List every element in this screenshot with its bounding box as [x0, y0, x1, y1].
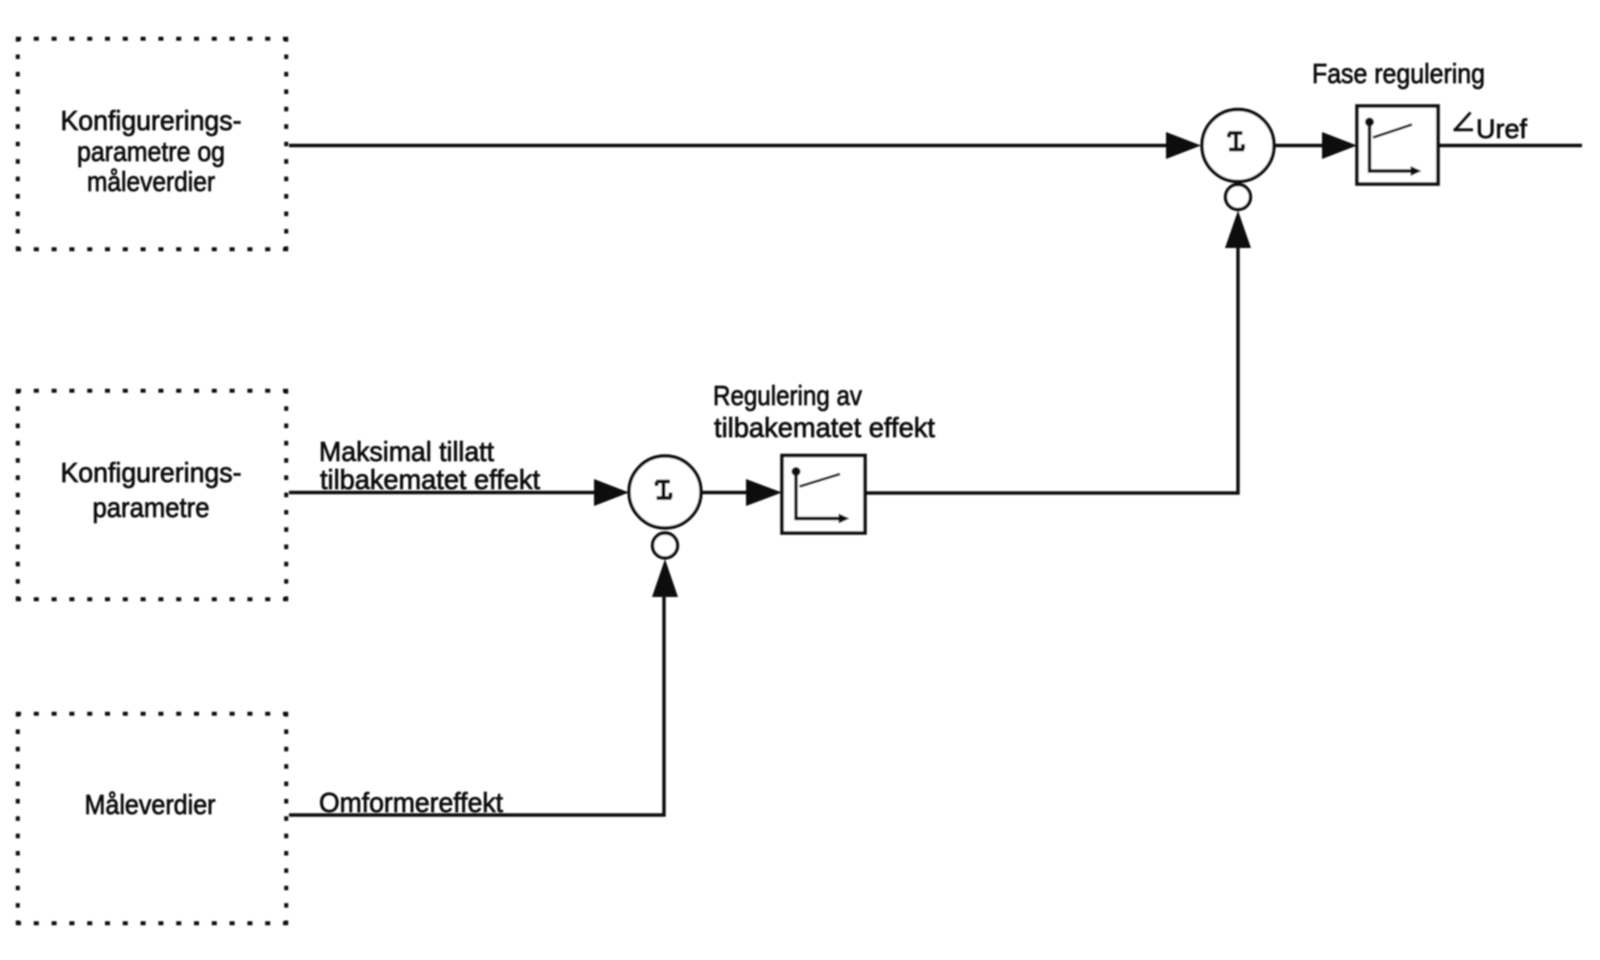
- svg-text:parametre og: parametre og: [77, 136, 225, 167]
- summer S2 (sigma circle): [629, 456, 701, 528]
- arrowhead up into S2 minus port: [652, 559, 678, 597]
- wire: bottom horizontal then up into S2 minus port: [289, 597, 664, 815]
- svg-text:måleverdier: måleverdier: [87, 166, 215, 197]
- arrowhead up into S1 minus port: [1225, 211, 1251, 249]
- svg-text:Regulering av: Regulering av: [713, 380, 862, 411]
- label: Fase regulering: [1312, 58, 1485, 89]
- label: angle Uref: [1454, 113, 1528, 145]
- svg-text:Konfigurerings-: Konfigurerings-: [61, 105, 242, 136]
- svg-text:tilbakematet effekt: tilbakematet effekt: [714, 412, 935, 443]
- svg-text:Fase regulering: Fase regulering: [1312, 58, 1485, 89]
- wire: U1 output to right edge: [1438, 144, 1582, 147]
- svg-text:Konfigurerings-: Konfigurerings-: [61, 457, 242, 488]
- summer S1 (sigma circle): [1202, 110, 1274, 182]
- minus port circle under S2: [653, 533, 678, 558]
- arrowhead into limiter U1: [1322, 132, 1357, 159]
- dashed box: Konfigurerings-parametre: [16, 389, 288, 601]
- wire: S2 to limiter U2: [701, 491, 748, 494]
- label: Regulering av / tilbakematet effekt: [713, 380, 935, 443]
- wire: middle horizontal into summer S2: [289, 491, 595, 494]
- arrowhead into summer S1: [1166, 132, 1201, 159]
- limiter U2 box: [782, 456, 865, 534]
- dashed box: Maleverdier: [16, 712, 288, 925]
- label: Maksimal tillatt / tilbakematet effekt: [319, 436, 540, 495]
- svg-text:parametre: parametre: [93, 492, 210, 523]
- arrowhead into summer S2: [594, 479, 629, 506]
- wire: S1 to limiter U1: [1274, 144, 1324, 147]
- svg-text:Måleverdier: Måleverdier: [85, 789, 216, 820]
- wire: from limiter U2 up into S1: [865, 247, 1238, 493]
- wire: top horizontal into summer S1: [289, 144, 1167, 147]
- limiter U1 box: [1357, 106, 1438, 184]
- svg-text:Uref: Uref: [1476, 114, 1527, 144]
- dashed box: Konfigurerings-parametre og maleverdier: [16, 37, 288, 251]
- arrowhead into limiter U2: [746, 479, 782, 506]
- svg-text:tilbakematet effekt: tilbakematet effekt: [320, 464, 540, 495]
- svg-text:Maksimal tillatt: Maksimal tillatt: [319, 436, 494, 467]
- label: Omformereffekt: [319, 787, 503, 818]
- minus port circle under S1: [1226, 185, 1251, 210]
